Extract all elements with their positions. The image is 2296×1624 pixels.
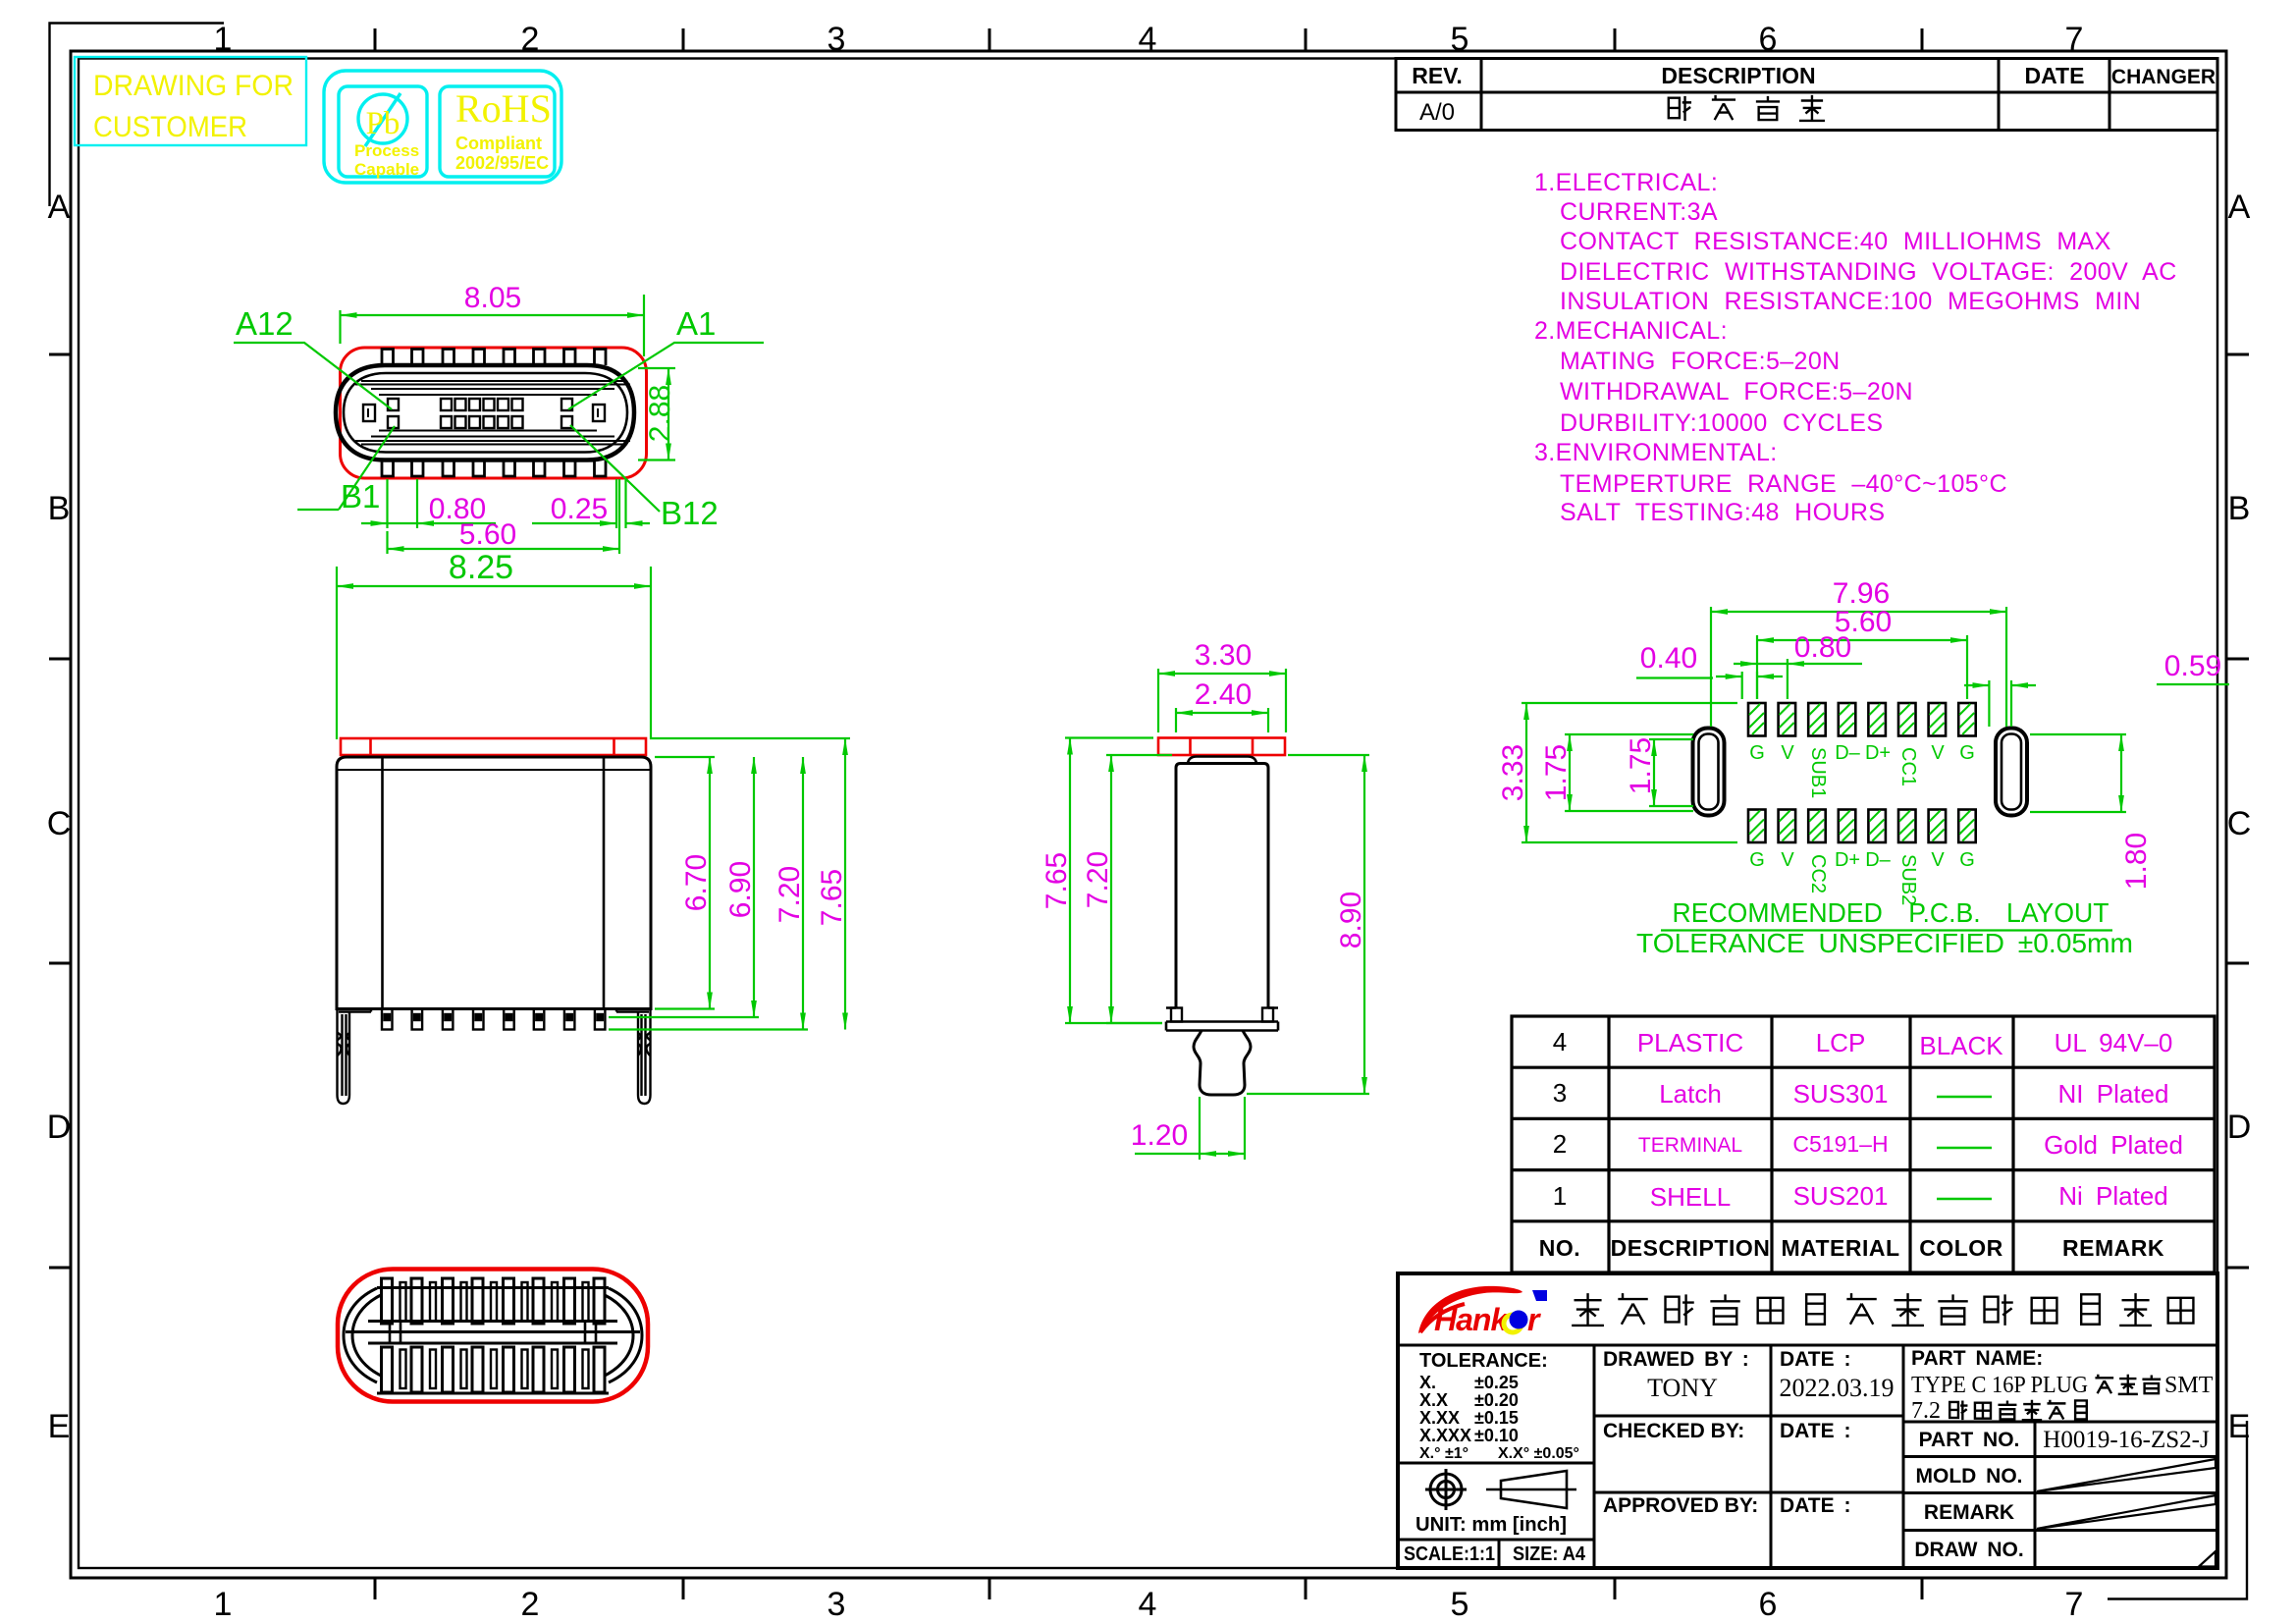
bottom pad row xyxy=(1748,810,1766,843)
black end arcs xyxy=(344,1288,377,1382)
inner shell line xyxy=(344,373,627,453)
svg-text:TERMINAL: TERMINAL xyxy=(1638,1134,1742,1157)
top pin row xyxy=(382,1278,606,1324)
dimension 1.80 xyxy=(2030,734,2126,812)
svg-text:V: V xyxy=(1781,849,1794,871)
red outline xyxy=(338,1270,648,1402)
Pb crossed circle xyxy=(358,94,407,143)
svg-text:Compliant: Compliant xyxy=(455,134,542,153)
svg-text:APPROVED BY:: APPROVED BY: xyxy=(1603,1494,1758,1517)
inner horizontal band lines xyxy=(355,381,630,445)
svg-text:H0019-16-ZS2-J: H0019-16-ZS2-J xyxy=(2043,1427,2210,1453)
svg-text:1: 1 xyxy=(214,21,233,58)
svg-text:7.65: 7.65 xyxy=(1041,852,1073,909)
bottom flange xyxy=(1166,1006,1278,1009)
svg-text:BLACK: BLACK xyxy=(1919,1031,2003,1060)
tail xyxy=(1194,1031,1251,1096)
svg-text:7.20: 7.20 xyxy=(774,866,806,923)
svg-text:A: A xyxy=(48,189,71,226)
svg-text:0.59: 0.59 xyxy=(2164,650,2221,682)
svg-text:0.40: 0.40 xyxy=(1640,642,1697,675)
svg-text:CUSTOMER: CUSTOMER xyxy=(93,111,247,143)
svg-text:D+: D+ xyxy=(1865,742,1891,764)
dimension 7.96 xyxy=(1711,607,2006,727)
dimension 2.88 xyxy=(638,368,675,460)
black stadium outer shell xyxy=(336,365,634,460)
svg-text:UNIT: mm [inch]: UNIT: mm [inch] xyxy=(1415,1514,1567,1536)
right labels xyxy=(1914,1429,2023,1561)
svg-text:1.20: 1.20 xyxy=(1131,1119,1188,1152)
svg-text:0.80: 0.80 xyxy=(1794,631,1851,664)
dimension 0.59 xyxy=(1989,680,2011,727)
svg-text:NO.: NO. xyxy=(1539,1235,1580,1261)
top pad labels xyxy=(1749,742,1975,798)
red top strip xyxy=(341,738,646,755)
svg-text:D: D xyxy=(47,1109,72,1146)
notes text xyxy=(1534,169,2177,526)
svg-text:Hank: Hank xyxy=(1434,1302,1510,1337)
dimension 7.65 xyxy=(650,737,850,739)
svg-text:DIELECTRIC WITHSTANDING VOLTAG: DIELECTRIC WITHSTANDING VOLTAGE: 200V AC xyxy=(1560,258,2177,286)
hanker logo xyxy=(1418,1286,1547,1337)
dimension 7.20 xyxy=(609,1028,808,1030)
drawing-for-customer box xyxy=(75,57,306,145)
svg-text:G: G xyxy=(1959,849,1975,871)
right oval hole xyxy=(1996,729,2027,816)
svg-text:MATERIAL: MATERIAL xyxy=(1781,1235,1899,1261)
svg-text:UL 94V–0: UL 94V–0 xyxy=(2055,1028,2173,1057)
svg-text:TOLERANCE UNSPECIFIED ±0.05mm: TOLERANCE UNSPECIFIED ±0.05mm xyxy=(1636,928,2133,958)
svg-text:COLOR: COLOR xyxy=(1919,1235,2003,1261)
svg-text:A: A xyxy=(2228,189,2251,226)
svg-text:MOLD NO.: MOLD NO. xyxy=(1916,1465,2023,1488)
svg-text:3: 3 xyxy=(828,1586,846,1623)
svg-text:3.ENVIRONMENTAL:: 3.ENVIRONMENTAL: xyxy=(1534,439,1778,466)
svg-text:2022.03.19: 2022.03.19 xyxy=(1780,1374,1895,1402)
svg-text:C: C xyxy=(47,805,72,842)
dimension 8.90 xyxy=(1247,755,1369,1094)
svg-text:DURBILITY:10000 CYCLES: DURBILITY:10000 CYCLES xyxy=(1560,409,1883,437)
right zone ticks xyxy=(2226,354,2249,1268)
svg-text:B: B xyxy=(2228,490,2251,527)
svg-text:RECOMMENDED P.C.B. LAYOUT: RECOMMENDED P.C.B. LAYOUT xyxy=(1673,897,2109,928)
top pad row xyxy=(1748,703,1766,736)
svg-text:X.XX: X.XX xyxy=(1419,1408,1460,1428)
tolerance cell xyxy=(1419,1350,1579,1462)
svg-text:X.XXX: X.XXX xyxy=(1419,1426,1471,1445)
svg-text:±0.10: ±0.10 xyxy=(1474,1426,1519,1445)
hanzi 原始版本 xyxy=(1669,95,1825,121)
svg-text:CONTACT RESISTANCE:40 MILLIOHM: CONTACT RESISTANCE:40 MILLIOHMS MAX xyxy=(1560,228,2111,255)
svg-text:A12: A12 xyxy=(236,305,294,342)
svg-text:TYPE C 16P PLUG: TYPE C 16P PLUG xyxy=(1911,1373,2088,1398)
zone numbers bottom xyxy=(214,1586,2084,1623)
svg-text:SMT: SMT xyxy=(2164,1373,2214,1398)
top mounting tabs xyxy=(382,350,606,366)
svg-text:SUS301: SUS301 xyxy=(1793,1079,1889,1109)
svg-text:3.30: 3.30 xyxy=(1195,639,1252,672)
body xyxy=(1176,764,1268,1008)
svg-text:Pb: Pb xyxy=(366,106,400,141)
svg-text:±0.20: ±0.20 xyxy=(1474,1390,1519,1410)
narrow pins top row xyxy=(400,1282,589,1322)
svg-text:CHECKED BY:: CHECKED BY: xyxy=(1603,1420,1744,1442)
horizontal rails xyxy=(346,1288,640,1394)
svg-text:G: G xyxy=(1959,742,1975,764)
svg-text:Gold Plated: Gold Plated xyxy=(2044,1130,2183,1160)
svg-text:A/0: A/0 xyxy=(1419,99,1455,126)
svg-text:Latch: Latch xyxy=(1659,1079,1722,1109)
svg-text:D–: D– xyxy=(1835,742,1860,764)
svg-text:1.ELECTRICAL:: 1.ELECTRICAL: xyxy=(1534,169,1718,196)
svg-text:D+: D+ xyxy=(1835,849,1860,871)
right leg xyxy=(616,1009,651,1105)
zone numbers top xyxy=(214,21,2084,58)
svg-text:CHANGER: CHANGER xyxy=(2111,66,2216,88)
svg-text:4: 4 xyxy=(1139,21,1157,58)
dimension 6.90 xyxy=(609,1016,759,1018)
svg-text:TONY: TONY xyxy=(1647,1374,1718,1402)
svg-text:SUB1: SUB1 xyxy=(1807,747,1829,798)
svg-text:2: 2 xyxy=(521,1586,540,1623)
dimension 5.60 xyxy=(388,479,620,554)
left zone ticks xyxy=(49,354,71,1268)
dimension 0.80 xyxy=(388,479,418,528)
bottom pin row xyxy=(382,1347,606,1392)
svg-text:SHELL: SHELL xyxy=(1650,1182,1731,1212)
svg-text:5: 5 xyxy=(1451,21,1469,58)
company name hanzi xyxy=(1572,1293,2193,1326)
svg-text:X.: X. xyxy=(1419,1373,1436,1392)
svg-text:SALT TESTING:48 HOURS: SALT TESTING:48 HOURS xyxy=(1560,499,1885,526)
svg-text:DRAW NO.: DRAW NO. xyxy=(1914,1539,2023,1561)
svg-text:CC2: CC2 xyxy=(1807,854,1829,893)
blank diagonal marks xyxy=(2037,1459,2216,1567)
bottom-right corner trim mark xyxy=(2108,1421,2247,1599)
dimension 0.40 xyxy=(1742,672,1757,699)
svg-text:4: 4 xyxy=(1553,1027,1567,1056)
svg-text:2: 2 xyxy=(1553,1129,1567,1159)
top-left corner trim mark xyxy=(50,24,225,207)
bottom mounting tabs xyxy=(382,460,606,477)
svg-text:6.90: 6.90 xyxy=(724,861,757,918)
left oval hole xyxy=(1693,729,1725,816)
svg-text:7.65: 7.65 xyxy=(816,869,848,926)
dimension 7.65 xyxy=(1065,738,1162,1024)
svg-text:B: B xyxy=(48,490,71,527)
svg-text:4: 4 xyxy=(1139,1586,1157,1623)
svg-text:DATE :: DATE : xyxy=(1780,1420,1850,1442)
Pb RoHS badge xyxy=(324,71,561,183)
svg-text:2002/95/EC: 2002/95/EC xyxy=(455,153,549,173)
svg-text:Capable: Capable xyxy=(354,160,419,179)
dimension 6.70 xyxy=(655,757,715,1009)
svg-text:8.25: 8.25 xyxy=(449,549,513,586)
svg-text:Ni Plated: Ni Plated xyxy=(2058,1181,2168,1211)
svg-text:SCALE:1:1: SCALE:1:1 xyxy=(1404,1543,1495,1565)
svg-text:G: G xyxy=(1749,849,1765,871)
smt pins xyxy=(382,1009,605,1030)
svg-text:DATE: DATE xyxy=(2025,63,2085,88)
svg-text:6: 6 xyxy=(1759,21,1778,58)
svg-text:Process: Process xyxy=(354,141,419,160)
svg-text:REV.: REV. xyxy=(1412,63,1463,88)
bottom pad labels xyxy=(1749,849,1975,905)
svg-text:DESCRIPTION: DESCRIPTION xyxy=(1611,1235,1771,1261)
cone symbol xyxy=(1486,1471,1576,1508)
svg-text:7.2: 7.2 xyxy=(1911,1398,1941,1424)
dimension 2.40 xyxy=(1176,708,1268,732)
dimension 8.25 xyxy=(337,567,651,739)
dimension 1.75 b xyxy=(1649,739,1693,806)
svg-text:3: 3 xyxy=(1553,1078,1567,1108)
svg-text:INSULATION RESISTANCE:100 MEGO: INSULATION RESISTANCE:100 MEGOHMS MIN xyxy=(1560,288,2141,315)
svg-text:V: V xyxy=(1931,742,1945,764)
dimension 0.80 xyxy=(1787,659,1789,699)
zone letters right xyxy=(2227,189,2252,1445)
top zone ticks xyxy=(375,28,1922,51)
svg-text:DATE :: DATE : xyxy=(1780,1494,1850,1517)
svg-text:5.60: 5.60 xyxy=(459,518,516,551)
svg-text:NI Plated: NI Plated xyxy=(2058,1079,2169,1109)
tongue outline xyxy=(379,395,597,431)
svg-text:2: 2 xyxy=(521,21,540,58)
svg-text:TOLERANCE:: TOLERANCE: xyxy=(1419,1350,1548,1372)
svg-text:r: r xyxy=(1527,1302,1541,1337)
red top strip xyxy=(1158,738,1285,756)
svg-text:2.40: 2.40 xyxy=(1195,678,1252,711)
svg-text:1: 1 xyxy=(1553,1181,1567,1211)
svg-text:0.25: 0.25 xyxy=(551,493,608,525)
svg-text:3.33: 3.33 xyxy=(1497,744,1529,801)
svg-text:E: E xyxy=(48,1408,71,1445)
svg-text:7: 7 xyxy=(2065,21,2084,58)
dimension 3.33 xyxy=(1522,703,1737,842)
svg-text:PLASTIC: PLASTIC xyxy=(1637,1028,1743,1057)
svg-text:B12: B12 xyxy=(661,495,719,531)
left leg xyxy=(338,1009,372,1105)
svg-text:MATING FORCE:5–20N: MATING FORCE:5–20N xyxy=(1560,348,1841,375)
svg-text:C5191–H: C5191–H xyxy=(1792,1131,1888,1157)
dimension 3.30 xyxy=(1158,669,1286,732)
svg-text:RoHS: RoHS xyxy=(455,86,552,131)
svg-text:DRAWED BY :: DRAWED BY : xyxy=(1603,1348,1749,1371)
svg-text:V: V xyxy=(1781,742,1794,764)
shell body xyxy=(337,757,651,1009)
bottom zone ticks xyxy=(375,1578,1922,1599)
svg-text:PART NO.: PART NO. xyxy=(1919,1429,2020,1451)
svg-text:1.75: 1.75 xyxy=(1540,744,1573,801)
svg-text:CURRENT:3A: CURRENT:3A xyxy=(1560,198,1718,226)
projection symbol xyxy=(1425,1469,1467,1510)
svg-text:1.75: 1.75 xyxy=(1625,737,1657,794)
dimension 5.60 xyxy=(1757,635,1967,699)
zone letters left xyxy=(47,189,72,1445)
svg-text:SUS201: SUS201 xyxy=(1793,1181,1889,1211)
svg-text:CC1: CC1 xyxy=(1897,747,1919,786)
narrow pins bottom row xyxy=(400,1350,589,1389)
svg-text:DESCRIPTION: DESCRIPTION xyxy=(1661,63,1815,88)
svg-text:X.X° ±0.05°: X.X° ±0.05° xyxy=(1498,1445,1579,1462)
svg-text:X.X: X.X xyxy=(1419,1390,1448,1410)
svg-text:7.20: 7.20 xyxy=(1082,851,1114,908)
svg-text:REMARK: REMARK xyxy=(2062,1235,2164,1261)
svg-text:7: 7 xyxy=(2065,1586,2084,1623)
svg-text:PART NAME:: PART NAME: xyxy=(1911,1347,2043,1370)
dimension 1.75 a xyxy=(1565,734,1693,811)
REV table xyxy=(1396,59,2217,132)
svg-text:C: C xyxy=(2227,805,2252,842)
svg-text:1.80: 1.80 xyxy=(2120,833,2153,890)
svg-text:8.05: 8.05 xyxy=(464,282,521,314)
dimension 1.20 xyxy=(1200,1097,1245,1160)
svg-text:1: 1 xyxy=(214,1586,233,1623)
svg-text:A1: A1 xyxy=(676,305,716,342)
svg-text:5: 5 xyxy=(1451,1586,1469,1623)
svg-text:6.70: 6.70 xyxy=(680,854,713,911)
svg-text:±0.15: ±0.15 xyxy=(1474,1408,1519,1428)
dimension 0.25 xyxy=(616,479,626,528)
svg-text:E: E xyxy=(2228,1408,2251,1445)
svg-text:G: G xyxy=(1749,742,1765,764)
svg-text:DATE :: DATE : xyxy=(1780,1348,1850,1371)
end detail marks xyxy=(390,1322,596,1344)
svg-text:±0.25: ±0.25 xyxy=(1474,1373,1519,1392)
svg-text:D: D xyxy=(2227,1109,2252,1146)
svg-text:8.90: 8.90 xyxy=(1335,892,1367,948)
svg-text:3: 3 xyxy=(828,21,846,58)
middle column xyxy=(1603,1348,1850,1517)
svg-text:2.88: 2.88 xyxy=(644,385,676,442)
lower contact row xyxy=(388,416,572,428)
svg-text:2.MECHANICAL:: 2.MECHANICAL: xyxy=(1534,317,1728,345)
red shell outline xyxy=(341,348,647,478)
dimension 8.05 xyxy=(341,295,645,356)
svg-text:D–: D– xyxy=(1865,849,1891,871)
upper contact row xyxy=(388,399,572,410)
svg-text:TEMPERTURE RANGE –40°C~105°C: TEMPERTURE RANGE –40°C~105°C xyxy=(1560,470,2007,498)
svg-text:V: V xyxy=(1931,849,1945,871)
dimension 7.20 xyxy=(1106,755,1172,1023)
svg-text:SIZE: A4: SIZE: A4 xyxy=(1513,1543,1586,1565)
svg-text:WITHDRAWAL FORCE:5–20N: WITHDRAWAL FORCE:5–20N xyxy=(1560,378,1913,406)
side latch marks xyxy=(363,405,375,421)
svg-text:DRAWING FOR: DRAWING FOR xyxy=(93,70,294,102)
svg-text:X.° ±1°: X.° ±1° xyxy=(1419,1445,1468,1462)
svg-text:6: 6 xyxy=(1759,1586,1778,1623)
svg-text:REMARK: REMARK xyxy=(1924,1501,2014,1524)
svg-text:LCP: LCP xyxy=(1816,1028,1866,1057)
